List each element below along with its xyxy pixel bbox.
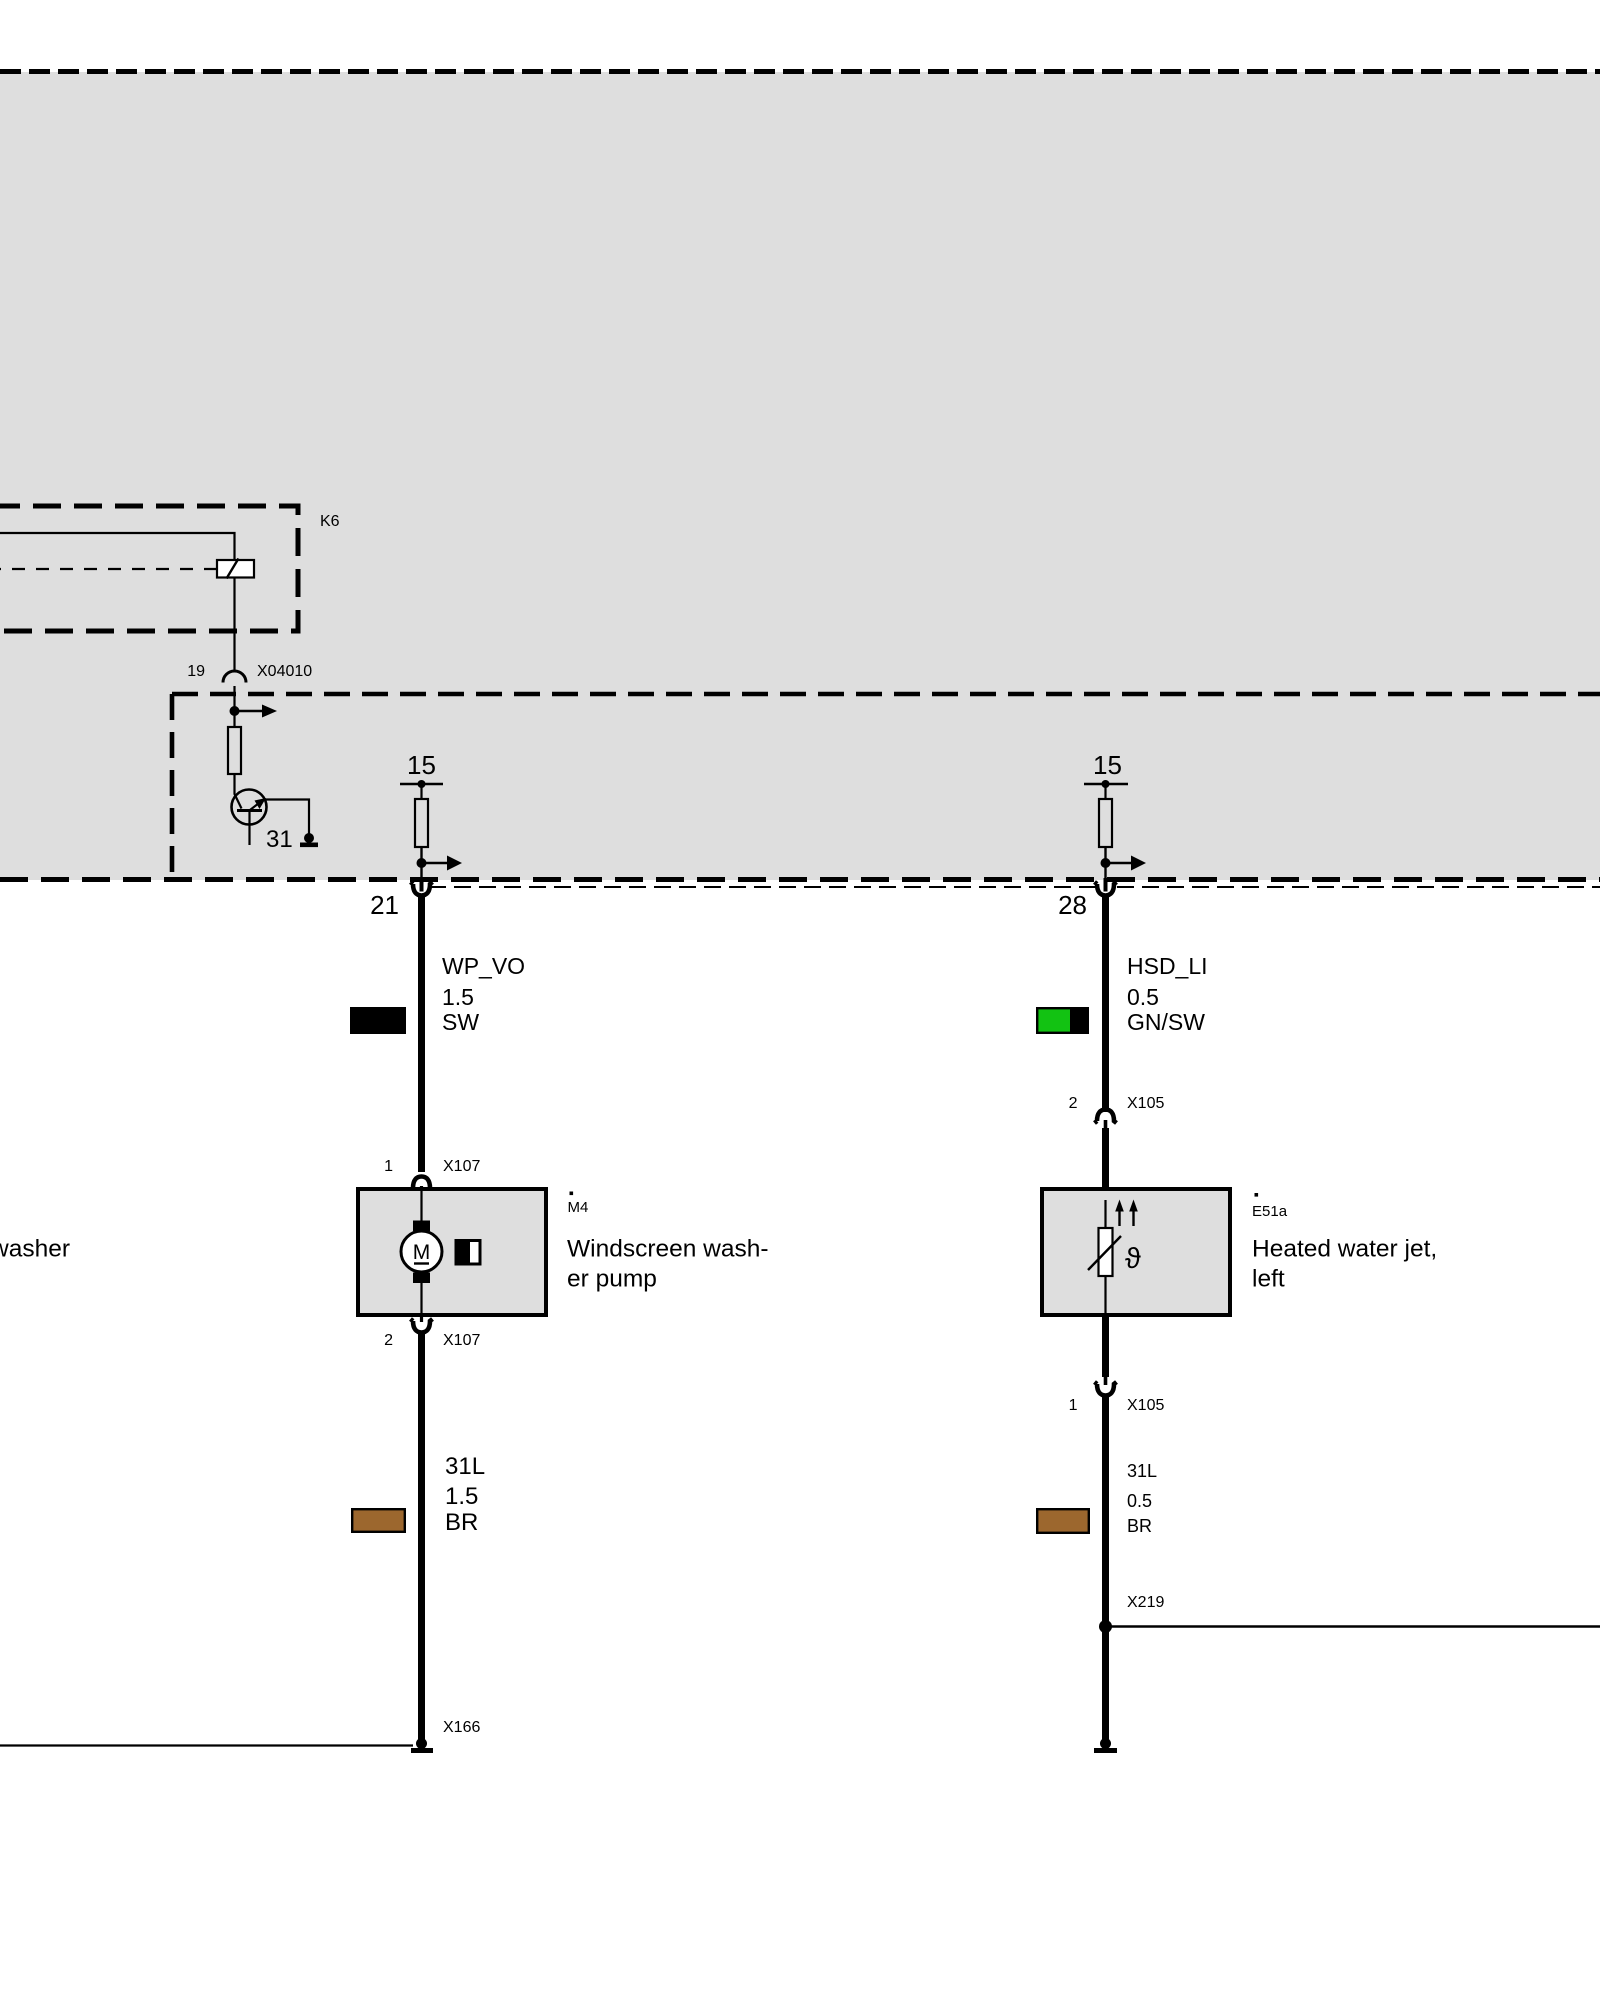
svg-text:er pump: er pump [567, 1266, 657, 1293]
ground (internal) [304, 833, 314, 843]
svg-text:0.5: 0.5 [1127, 1491, 1152, 1511]
wire into heater [1102, 1128, 1109, 1200]
wire relay coil dashed [0, 568, 217, 570]
svg-text:E51a: E51a [1252, 1203, 1288, 1220]
connector socket pin 21 [411, 882, 433, 896]
node X219 junction [1099, 1620, 1112, 1633]
internal wire [420, 1191, 422, 1313]
svg-text:washer: washer [0, 1236, 70, 1263]
svg-text:M4: M4 [568, 1199, 589, 1216]
svg-text:1: 1 [1069, 1397, 1078, 1414]
wire HSD_LI [1102, 894, 1109, 1112]
svg-text:HSD_LI: HSD_LI [1127, 953, 1208, 979]
svg-text:ϑ: ϑ [1125, 1243, 1141, 1275]
node junction with arrow [230, 706, 240, 716]
internal wire [1104, 1200, 1106, 1315]
resistor (pull-up) [228, 727, 241, 774]
svg-text:31L: 31L [445, 1453, 485, 1480]
svg-text:X105: X105 [1127, 1397, 1164, 1414]
ground right [1100, 1738, 1111, 1749]
upper module bottom dashed border [0, 69, 1600, 74]
svg-text:1.5: 1.5 [442, 984, 474, 1010]
wire color swatch SW [350, 1007, 406, 1034]
wire emitter to ground [263, 800, 309, 837]
svg-text:21: 21 [370, 890, 399, 920]
wire color swatch GN [1037, 1008, 1071, 1033]
svg-text:X219: X219 [1127, 1594, 1164, 1611]
module interior gray area [0, 72, 1600, 880]
svg-text:31L: 31L [1127, 1461, 1157, 1481]
connector socket X107 pin 1 [411, 1177, 433, 1191]
ground X166 [416, 1738, 427, 1749]
wire color swatch BR left [352, 1509, 405, 1532]
pin out of motor [420, 1315, 423, 1322]
svg-text:X166: X166 [443, 1719, 480, 1736]
pin into motor [420, 1186, 423, 1198]
svg-text:0.5: 0.5 [1127, 984, 1159, 1010]
svg-text:K6: K6 [320, 513, 340, 530]
svg-text:BR: BR [445, 1509, 478, 1536]
connector socket pin 28 [1095, 882, 1117, 896]
wire [420, 784, 422, 799]
terminal 15 rail [1084, 783, 1128, 785]
wire WP_VO [418, 894, 425, 1172]
wire to transistor [235, 774, 242, 809]
wire [1104, 784, 1106, 799]
wire relay output [233, 578, 235, 673]
motor brush top [413, 1221, 430, 1232]
svg-text:SW: SW [442, 1009, 479, 1035]
svg-text:Heated water jet,: Heated water jet, [1252, 1236, 1437, 1263]
fuse resistor [1099, 799, 1112, 847]
svg-text:28: 28 [1058, 890, 1087, 920]
wire down across border [1104, 847, 1106, 880]
motor M symbol [401, 1231, 442, 1272]
ground rail line left [0, 1744, 413, 1746]
wire 31L left [418, 1331, 425, 1740]
pin below heater [1104, 1377, 1108, 1385]
lower harness thin dashed border right [1117, 886, 1600, 888]
wire 31L right [1102, 1394, 1109, 1740]
svg-text:31: 31 [266, 826, 293, 853]
inner module dashed box [170, 694, 175, 879]
wire [233, 711, 235, 727]
svg-text:X107: X107 [443, 1158, 480, 1175]
svg-text:19: 19 [187, 663, 205, 680]
svg-text:X107: X107 [443, 1332, 480, 1349]
node junction with arrow [1101, 858, 1111, 868]
wire color swatch SW part [1071, 1007, 1089, 1034]
svg-text:2: 2 [384, 1332, 393, 1349]
terminal 15 rail [400, 783, 443, 785]
svg-text:left: left [1252, 1266, 1285, 1293]
connector X04010 socket [223, 671, 246, 683]
wire out of heater [1102, 1315, 1109, 1377]
svg-text:WP_VO: WP_VO [442, 953, 525, 979]
heater arrows [1118, 1211, 1120, 1226]
svg-text:X105: X105 [1127, 1095, 1164, 1112]
svg-text:15: 15 [407, 750, 436, 780]
transistor Q1 [232, 790, 267, 846]
wire down across border [420, 847, 422, 880]
heated jet E51a box [1042, 1189, 1230, 1315]
wire color swatch BR right [1037, 1509, 1089, 1533]
motor M4 box [358, 1189, 546, 1315]
pin below X105-2 [1104, 1120, 1108, 1130]
fuse resistor [415, 799, 428, 847]
wire splice to right [1106, 1625, 1600, 1627]
svg-text:M: M [413, 1241, 431, 1264]
dot above E51a [1255, 1193, 1259, 1197]
connector socket X107 pin 2 [411, 1319, 433, 1333]
wire [233, 686, 235, 712]
washer pump icon [456, 1241, 480, 1265]
relay K6 dashed box [0, 506, 298, 631]
module bottom thick dashed border [0, 877, 1600, 882]
dot above M4 [570, 1192, 574, 1196]
node junction with arrow [417, 858, 427, 868]
connector socket X105 pin 2 [1095, 1110, 1117, 1124]
svg-text:2: 2 [1069, 1095, 1078, 1112]
svg-text:X04010: X04010 [257, 663, 312, 680]
svg-text:1: 1 [384, 1158, 393, 1175]
svg-text:1.5: 1.5 [445, 1483, 478, 1510]
connector socket X105 pin 1 [1095, 1382, 1117, 1396]
thermistor element [1099, 1228, 1113, 1276]
wire relay feed solid [0, 533, 235, 560]
svg-text:GN/SW: GN/SW [1127, 1009, 1205, 1035]
svg-text:BR: BR [1127, 1516, 1152, 1536]
svg-text:15: 15 [1093, 750, 1122, 780]
relay coil K6 [217, 560, 254, 578]
motor brush bottom [413, 1273, 430, 1284]
lower harness thin dashed border [429, 886, 1095, 888]
svg-text:Windscreen wash-: Windscreen wash- [567, 1236, 769, 1263]
